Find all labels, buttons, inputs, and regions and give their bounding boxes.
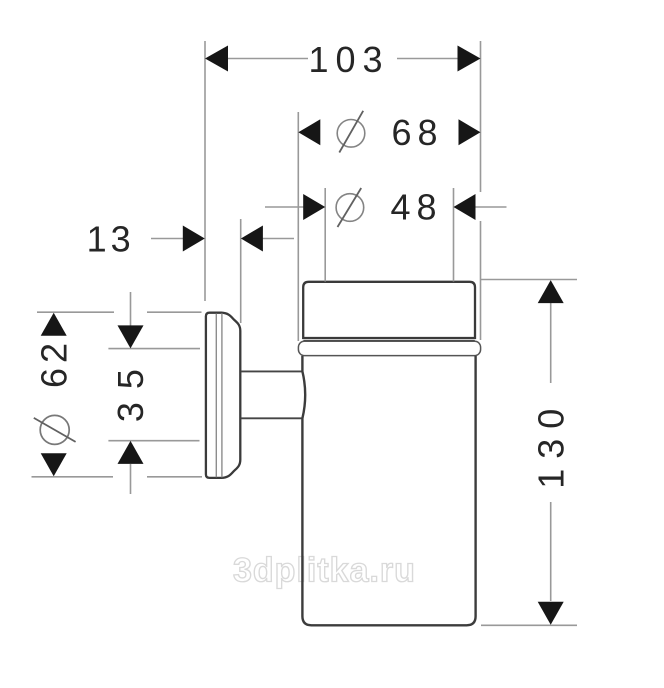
glass rim	[303, 282, 475, 338]
svg-text:48: 48	[390, 187, 442, 228]
svg-text:35: 35	[110, 356, 151, 422]
dim 62 extension line top	[37, 311, 202, 313]
dim 62 label	[34, 338, 75, 388]
arm upper line	[241, 370, 303, 372]
dim 68 arrow left	[298, 119, 320, 145]
dim 35 extension line top	[108, 348, 200, 350]
dim 48 arrow right	[454, 194, 476, 220]
holder ring	[298, 341, 480, 355]
dim 35 label	[110, 356, 151, 422]
dim 48 extension line right	[453, 188, 455, 282]
dim 130 tail top	[550, 303, 552, 383]
dim 62 extension line bottom	[32, 476, 203, 478]
dim 68 arrow right	[459, 119, 481, 145]
dim 68 diameter symbol	[337, 111, 365, 153]
dim 35 arrow bottom	[118, 441, 144, 464]
dim 48 label	[390, 187, 442, 228]
glass rim lower line	[303, 340, 474, 342]
dim 35 arrow top	[118, 325, 144, 348]
glass body	[302, 356, 475, 626]
dim 130 tail bottom	[550, 502, 552, 601]
dim 130 arrow up	[538, 280, 564, 303]
dim 48 arrow left	[303, 194, 325, 220]
dim 35 tail top	[130, 292, 132, 326]
svg-text:62: 62	[34, 338, 75, 388]
dim 103 label	[308, 39, 389, 80]
dim 13 leader right	[262, 238, 294, 240]
svg-text:130: 130	[530, 399, 571, 489]
dim 103 extension line left	[204, 41, 206, 301]
dim 68 extension line right lower	[480, 221, 482, 340]
wall plate	[206, 313, 240, 478]
svg-text:3dplitka.ru: 3dplitka.ru	[233, 552, 416, 590]
dim 48 leader left	[265, 206, 304, 208]
dim 103 arrow right	[458, 46, 481, 72]
dim 130 extension line bottom	[481, 624, 577, 626]
dim 62 arrow down	[41, 453, 67, 476]
dim 13 extension line right	[240, 219, 242, 323]
dim 13 arrow right	[241, 226, 263, 252]
dim 103 line right	[397, 58, 458, 60]
dim 130 label	[530, 399, 571, 489]
watermark 3dplitka.ru	[233, 552, 416, 590]
dim 13 arrow left	[183, 226, 205, 252]
dim 48 diameter symbol	[336, 188, 364, 227]
dim 48 extension line left	[324, 188, 326, 282]
wall plate inner line 1	[215, 314, 217, 478]
dim 130 arrow down	[538, 602, 564, 625]
dim 103/68 extension line right upper	[480, 41, 482, 192]
dim 68 extension line left	[297, 112, 299, 341]
dim 35 extension line bottom	[108, 440, 199, 442]
dim 62 diameter symbol	[34, 415, 76, 444]
dim 13 label	[87, 218, 135, 259]
svg-text:103: 103	[308, 39, 389, 80]
svg-text:68: 68	[391, 112, 443, 153]
wall plate inner line 2	[221, 313, 223, 477]
arm lower line	[241, 417, 303, 419]
dim 62 arrow up	[41, 313, 67, 336]
dim 13 leader left	[151, 238, 183, 240]
dim 103 arrow left	[205, 46, 228, 72]
dim 48 leader right	[473, 206, 507, 208]
dim 35 tail bottom	[130, 464, 132, 494]
dim 68 label	[391, 112, 443, 153]
dim 130 extension line top	[481, 279, 577, 281]
dim 103 line left	[227, 58, 308, 60]
svg-text:13: 13	[87, 218, 135, 259]
